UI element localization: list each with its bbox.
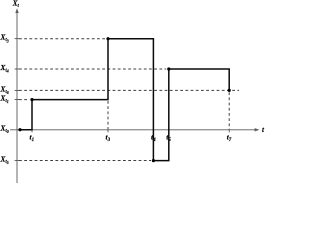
y tick X_t4 level bbox=[15, 68, 20, 70]
dashed level line X_t5 bbox=[19, 160, 151, 162]
x tick t7 bbox=[228, 130, 230, 133]
dashed drop line at t3 bbox=[107, 101, 109, 129]
point at t3 bbox=[106, 37, 109, 40]
dashed level line X_t4 bbox=[19, 68, 166, 70]
dashed level line X_t1 bbox=[19, 99, 30, 101]
point at t5 bbox=[167, 67, 170, 70]
dashed drop line at t7 bbox=[228, 92, 230, 129]
y tick X_t5 level bbox=[15, 160, 20, 162]
point at origin X_t0 bbox=[18, 128, 21, 131]
point at t1 bbox=[30, 98, 33, 101]
step path segment X_t1 level bbox=[32, 39, 108, 100]
y-axis bbox=[16, 10, 18, 184]
y tick X_t6 level bbox=[15, 89, 20, 91]
step path segment X_t3 level bbox=[108, 39, 153, 161]
dashed level line X_t6 bbox=[19, 89, 239, 91]
dashed level line X_t3 bbox=[19, 38, 106, 40]
point at t7 bbox=[228, 89, 231, 92]
x-axis bbox=[10, 129, 258, 131]
step path segment X_t5 level bbox=[153, 69, 168, 161]
x tick t3 bbox=[107, 130, 109, 133]
point at t4 bbox=[152, 159, 155, 162]
y tick X_t3 level bbox=[15, 38, 20, 40]
step path segment X_t4 level bbox=[169, 69, 229, 90]
y-axis arrowhead bbox=[15, 8, 18, 13]
step path segment X_t0 level bbox=[20, 100, 32, 130]
x-axis arrowhead bbox=[255, 128, 260, 131]
y tick X_t1 level bbox=[15, 99, 20, 101]
x tick t1 bbox=[31, 130, 33, 133]
